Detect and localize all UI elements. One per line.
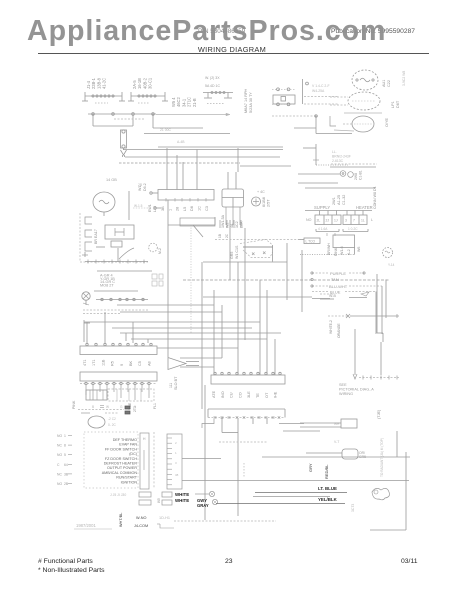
lower connector box left [86, 390, 107, 400]
wire dashed y442 [219, 441, 268, 443]
svg-text:9: 9 [120, 364, 124, 366]
aux contact boxes [152, 274, 163, 286]
wire y210 over terminal blocks [305, 210, 372, 212]
wire stub left of J10 [148, 192, 158, 212]
svg-text:A-4B: A-4B [177, 140, 185, 144]
wire table row TAN [311, 277, 339, 282]
svg-text:8: 8 [64, 444, 66, 448]
svg-text:LP1: LP1 [391, 101, 395, 108]
svg-text:C1-32: C1-32 [342, 195, 346, 205]
svg-text:(TJE): (TJE) [377, 409, 381, 419]
labels under lower connectors [92, 402, 157, 412]
svg-text:YEL/BLK: YEL/BLK [318, 497, 338, 502]
svg-text:5: 5 [64, 453, 66, 457]
svg-text:28A: 28A [239, 221, 243, 228]
legend bracket column [140, 433, 149, 489]
wire bus y147 [123, 147, 283, 150]
vertical wire x222 [221, 305, 223, 358]
compressor relay box [96, 225, 134, 247]
svg-text:WHT/BL: WHT/BL [119, 513, 123, 527]
control board connector bar J10 [158, 148, 214, 202]
wire bus node row [88, 113, 156, 116]
label WHITE bold pair [175, 492, 189, 503]
labels under relay module [221, 214, 243, 228]
drop wires under node row [222, 418, 267, 516]
svg-text:2-613C: 2-613C [332, 159, 344, 163]
svg-text:SLO BT: SLO BT [174, 376, 178, 390]
long dashed bottom [174, 520, 276, 522]
wire right branch [153, 114, 203, 128]
part number [198, 28, 245, 35]
run capacitor / overload M4 [330, 116, 389, 132]
wire x129 [128, 191, 130, 220]
svg-text:RED/BL: RED/BL [324, 464, 329, 479]
wire y225 from J10 [168, 200, 215, 357]
svg-text:1C: 1C [198, 206, 202, 211]
wire table row BLUE [312, 290, 376, 295]
table left boundary [301, 250, 303, 312]
wire bus y155 [125, 156, 280, 158]
wire drop left [93, 114, 133, 126]
svg-text:WHITE: WHITE [175, 498, 189, 503]
label LT. BLUE [253, 486, 347, 497]
wire y367 [180, 366, 214, 368]
svg-text:RUN/START: RUN/START [116, 476, 138, 480]
svg-text:L5: L5 [183, 207, 187, 211]
svg-text:H: H [143, 437, 146, 441]
svg-text:W: W [106, 405, 109, 409]
svg-text:DEF THERMO: DEF THERMO [113, 438, 137, 442]
svg-text:64: 64 [64, 463, 68, 467]
svg-text:1 0-2C: 1 0-2C [348, 227, 358, 231]
icemaker fan symbols [340, 170, 362, 180]
svg-text:W2: W2 [226, 223, 230, 228]
wire y174 [298, 173, 340, 175]
dashed vertical x244 [243, 463, 245, 477]
svg-text:21 00C: 21 00C [160, 128, 171, 132]
wire x316 lower segment [303, 144, 348, 165]
svg-text:PURPLE: PURPLE [330, 271, 346, 276]
svg-text:NC: NC [57, 444, 62, 448]
vertical wire x238 upper [237, 148, 239, 172]
connector J2 (freezer light harness) [128, 77, 168, 103]
svg-text:OUTPUT POWER: OUTPUT POWER [107, 466, 137, 470]
svg-text:O/YE: O/YE [385, 117, 389, 127]
bracket bottom [157, 524, 174, 528]
svg-text:ORANGE: ORANGE [337, 323, 341, 338]
door switch S1 [85, 217, 92, 224]
svg-text:W-1.5: W-1.5 [134, 204, 143, 208]
svg-text:41-2C: 41-2C [102, 78, 107, 89]
svg-text:111: 111 [169, 383, 173, 388]
vertical wire x230 [229, 220, 231, 280]
svg-text:4T1: 4T1 [83, 359, 87, 366]
dotted vertical x191 [190, 225, 192, 333]
svg-text:2W1: 2W1 [332, 197, 336, 205]
vertical connector strip [167, 434, 182, 489]
svg-text:M-2: M-2 [158, 248, 162, 254]
svg-text:C5: C5 [138, 361, 142, 366]
wire y358 [180, 357, 222, 359]
svg-text:R5: R5 [111, 361, 115, 366]
svg-text:11B: 11B [101, 359, 105, 366]
svg-text:TE: TE [256, 393, 260, 398]
table verticals down [376, 280, 386, 335]
svg-text:W-NO: W-NO [136, 516, 147, 520]
svg-text:2C: 2C [225, 233, 229, 238]
svg-text:4 1-6A: 4 1-6A [318, 227, 328, 231]
bottom bus of compressor area [85, 260, 148, 264]
label W-1.5 dashed [133, 204, 148, 208]
wire table row PURPLE [311, 271, 365, 276]
svg-text:A-2: A-2 [347, 249, 351, 255]
svg-text:V 1.4-C 2-F: V 1.4-C 2-F [312, 84, 330, 88]
connector J1 (fresh food light harness) [82, 77, 125, 103]
bottom right L wire [370, 452, 406, 530]
svg-text:W. (2) 3X: W. (2) 3X [205, 76, 220, 80]
door switch S3 [85, 242, 92, 251]
svg-text:G: G [120, 405, 123, 409]
wire y291 [94, 290, 138, 292]
svg-text:EVAP FAN: EVAP FAN [119, 443, 137, 447]
svg-text:2L: 2L [317, 219, 321, 223]
svg-text:1J: 1J [334, 219, 338, 223]
svg-text:1L: 1L [361, 219, 365, 223]
svg-text:WHITE-2: WHITE-2 [329, 320, 333, 334]
svg-text:ATE: ATE [212, 390, 216, 398]
small box lower-left of center [180, 218, 241, 238]
vertical wire x245 [244, 228, 246, 340]
step wire x377 [377, 274, 383, 375]
door switch S2 [85, 230, 92, 237]
node row y299 [96, 298, 148, 300]
wire table row W-B [312, 294, 367, 299]
svg-text:NO: NO [57, 434, 62, 438]
svg-text:5A 4D 1C: 5A 4D 1C [205, 84, 220, 88]
legend dashed box [84, 432, 138, 488]
svg-text:BR/WH: BR/WH [327, 243, 331, 255]
note SEE PICTORIAL [339, 383, 374, 396]
left pin labels column [57, 434, 72, 486]
footer non-illustrated parts [38, 567, 105, 574]
svg-text:38: 38 [175, 473, 179, 477]
svg-text:SUPPLY: SUPPLY [314, 205, 330, 210]
defrost heater box [300, 235, 361, 256]
svg-text:C22: C22 [387, 80, 391, 87]
svg-text:28: 28 [176, 207, 180, 211]
diagonal wire [193, 225, 203, 237]
wire to timer [303, 79, 339, 104]
svg-text:C: C [57, 463, 60, 467]
svg-text:1T1: 1T1 [92, 359, 96, 366]
legend text lines [102, 438, 138, 484]
svg-text:Y-14: Y-14 [388, 263, 395, 267]
svg-text:1: 1 [168, 209, 172, 211]
terminal block heater [343, 211, 373, 225]
relay module box [222, 172, 244, 225]
wire y113 [344, 112, 382, 114]
connector bar P12 [80, 343, 157, 354]
vertical wire x84 [84, 320, 90, 342]
svg-text:0- 2C: 0- 2C [108, 423, 116, 427]
svg-text:14 GB: 14 GB [106, 178, 117, 182]
svg-text:(DC): (DC) [129, 452, 137, 456]
svg-text:C3: C3 [205, 206, 209, 211]
svg-text:BRN/2-243F: BRN/2-243F [332, 155, 351, 159]
svg-text:W6: W6 [357, 247, 361, 252]
wire y166 [330, 166, 376, 168]
long vertical x205 [204, 385, 206, 520]
wire y431 [283, 430, 320, 432]
wire y166 [240, 165, 291, 167]
svg-text:W4-25A: W4-25A [312, 89, 325, 93]
svg-text:WIRING: WIRING [339, 392, 353, 396]
footer page number [225, 558, 233, 565]
svg-text:5/23A 30 TY: 5/23A 30 TY [249, 92, 253, 113]
node x155 [154, 207, 161, 209]
wire y114 continuation arrow [156, 113, 230, 116]
svg-text:EW1: EW1 [148, 204, 152, 212]
svg-text:3: 3 [175, 461, 177, 465]
svg-text:D8: D8 [190, 206, 194, 211]
svg-text:2B: 2B [64, 482, 69, 486]
label auxiliary dashed [312, 84, 330, 93]
node row y377 [359, 376, 399, 380]
svg-text:2W8: 2W8 [354, 173, 358, 180]
vertical wire x275 [274, 339, 276, 375]
svg-text:PICTORIAL DIAG..A: PICTORIAL DIAG..A [339, 388, 374, 392]
vertical wire x397 [396, 431, 398, 457]
thermal fuse F1 [121, 130, 127, 157]
wire y322 [84, 321, 260, 323]
terminal circles [195, 491, 218, 504]
wire table row BLU-WHT [311, 284, 382, 289]
svg-text:W1-6: W1-6 [340, 246, 344, 255]
svg-text:AU1: AU1 [382, 80, 386, 87]
labels under J20 [212, 390, 278, 398]
svg-text:W-B: W-B [329, 294, 337, 298]
svg-text:MO8 2T: MO8 2T [100, 283, 114, 287]
svg-text:3CT3: 3CT3 [351, 504, 355, 512]
wire corner x316 [294, 116, 352, 134]
wire y423 [279, 423, 304, 425]
svg-text:2J: 2J [326, 219, 330, 223]
svg-text:WHITE: WHITE [175, 492, 189, 497]
svg-text:1B: 1B [218, 234, 222, 238]
tick row y271 [97, 270, 152, 272]
svg-text:L: L [371, 218, 373, 222]
svg-text:J J5 JI J30: J J5 JI J30 [110, 493, 126, 497]
svg-text:HEATER: HEATER [356, 205, 373, 210]
svg-text:30-C1: 30-C1 [148, 77, 153, 89]
connector bar P13 [80, 372, 157, 381]
svg-text:TAN: TAN [331, 277, 339, 282]
svg-text:A1-25: A1-25 [337, 195, 341, 205]
dashed wire y239.5 [215, 239, 302, 241]
defrost timer box [272, 88, 295, 106]
motor symbol M6 [252, 190, 271, 207]
vertical wire x355 arrow [353, 329, 357, 379]
svg-text:BLU-WHT: BLU-WHT [329, 284, 348, 289]
svg-text:CONN W8 D1: CONN W8 D1 [373, 186, 377, 209]
svg-text:1C2: 1C2 [235, 221, 239, 228]
svg-text:SEE: SEE [339, 383, 347, 387]
svg-text:GR5: GR5 [359, 455, 366, 459]
svg-text:FF DOOR SWITCH: FF DOOR SWITCH [105, 447, 137, 451]
label BLUE lead arrow [320, 292, 369, 299]
svg-text:3-9C2 W8: 3-9C2 W8 [402, 71, 406, 86]
wire y297 [203, 296, 312, 298]
svg-text:3B: 3B [64, 472, 69, 476]
svg-text:FL1: FL1 [153, 403, 157, 409]
ground stub [82, 252, 88, 257]
vertical wire x287 [286, 243, 288, 300]
vertical wire x260 [259, 280, 261, 375]
wire y130 [334, 130, 354, 131]
svg-text:V-T: V-T [334, 440, 339, 444]
wire y348 [157, 347, 238, 349]
svg-text:D6T: D6T [396, 100, 400, 108]
watermark AppliancePartsPros.com [27, 17, 386, 46]
footer date [401, 558, 418, 565]
heater box [306, 449, 366, 459]
svg-text:NO: NO [306, 218, 312, 222]
vertical wire x202 [201, 262, 203, 409]
terminal block supply [306, 211, 341, 225]
thermostat blob [372, 488, 390, 499]
wire y333 [120, 332, 281, 334]
svg-text:1987/2001: 1987/2001 [76, 523, 96, 528]
wire bus y162 [119, 162, 240, 164]
pins under P13 [80, 382, 157, 400]
svg-text:IHE: IHE [274, 391, 278, 398]
svg-text:GRAY: GRAY [197, 503, 209, 508]
footer functional parts [38, 558, 93, 565]
svg-text:LL.: LL. [332, 150, 337, 154]
svg-text:NO: NO [57, 482, 62, 486]
wire y457 [262, 456, 410, 458]
wire y458 left [182, 458, 221, 460]
box below switch wedge [203, 261, 287, 263]
wire y339 [131, 338, 267, 340]
svg-text:NC: NC [57, 472, 62, 476]
labels under J10 [161, 206, 209, 211]
label cluster above supply [332, 195, 346, 205]
dashed enclosure left [80, 213, 148, 262]
svg-text:1W1-5A: 1W1-5A [221, 214, 225, 228]
svg-text:A8: A8 [147, 361, 151, 366]
fan motor M1 [93, 192, 115, 216]
svg-text:DEFROST HEATER: DEFROST HEATER [104, 462, 138, 466]
wire y280 long [183, 279, 390, 281]
svg-text:GR5: GR5 [230, 252, 234, 259]
svg-text:1: 1 [64, 434, 66, 438]
header rule [38, 53, 429, 54]
svg-text:J4-COM: J4-COM [134, 524, 148, 528]
lower dashed connector [108, 389, 154, 401]
wire y477 long [182, 480, 409, 482]
svg-text:NO: NO [57, 453, 62, 457]
title WIRING DIAGRAM [0, 45, 464, 54]
svg-text:+ 4C: + 4C [257, 190, 265, 194]
svg-text:PINK: PINK [72, 400, 76, 409]
label M6A7 vertical [244, 88, 253, 113]
wire y188 [305, 187, 375, 189]
svg-text:1: 1 [175, 451, 177, 455]
svg-text:3B: 3B [161, 206, 165, 211]
wire y328 [112, 327, 252, 329]
relay contact pair B [157, 492, 172, 505]
wires into P12 [87, 312, 148, 343]
vertical wire x238 [237, 262, 239, 375]
svg-text:BK: BK [129, 360, 133, 366]
label cluster mux [100, 274, 115, 288]
defrost thermostat bimetal [78, 406, 130, 429]
svg-text:IGNITION: IGNITION [121, 480, 138, 484]
svg-text:-2 C2: -2 C2 [108, 417, 116, 421]
svg-text:CO: CO [238, 392, 242, 398]
svg-text:B: B [92, 405, 94, 409]
dashed vertical x154 [153, 432, 155, 488]
evap fan motor M5 [383, 248, 393, 258]
label block LL/BRN [332, 150, 351, 163]
label GRAY bold pair [197, 498, 209, 508]
dashed rows y311 [83, 310, 148, 314]
svg-text:C1-B1: C1-B1 [359, 170, 363, 180]
svg-text:4A: 4A [230, 223, 234, 228]
vertical wire x267 [266, 290, 268, 375]
wire y305 [117, 304, 214, 306]
condenser fan motor M2 [352, 70, 391, 90]
vertical wire x214 [213, 290, 215, 375]
label YEL/BLK [216, 497, 345, 504]
lamp L1 [82, 292, 90, 305]
connector J3 (dispenser harness) [203, 76, 233, 104]
label W1 D6.2 [138, 183, 147, 191]
svg-text:LT. BLUE: LT. BLUE [318, 486, 337, 491]
water valve box [300, 419, 357, 428]
wire dashed y162 [331, 163, 377, 165]
TCO box [298, 238, 320, 244]
svg-text:3: 3 [345, 219, 347, 223]
icemaker motor M7 [149, 243, 162, 254]
svg-text:W5: W5 [157, 498, 161, 503]
relay contact pair A [139, 492, 151, 505]
step wire bottom left of J21 [202, 419, 214, 428]
svg-text:TO RADIANT (JA) M (TOP): TO RADIANT (JA) M (TOP) [380, 438, 384, 477]
labels under P12 [83, 359, 151, 366]
svg-text:FZ DOOR SWITCH: FZ DOOR SWITCH [105, 457, 137, 461]
wire arc to bus [118, 248, 134, 262]
wire bus y134 [144, 133, 230, 135]
lower connector bracket J21 [208, 409, 285, 419]
svg-text:2/5T: 2/5T [267, 199, 271, 207]
switch wedge S4 [230, 240, 273, 262]
publication number [331, 28, 415, 35]
svg-text:W1 C1S: W1 C1S [235, 245, 239, 259]
svg-text:CU: CU [230, 392, 234, 398]
svg-text:21-B: 21-B [192, 98, 197, 107]
wire y312 [120, 311, 222, 313]
amplifier triangle [168, 358, 199, 391]
wire y183 [298, 182, 338, 184]
svg-text:2: 2 [175, 441, 177, 445]
compressor motor M3 [330, 92, 400, 110]
svg-text:3LE: 3LE [247, 391, 251, 398]
svg-text:M6A7 14 RPH: M6A7 14 RPH [244, 88, 248, 113]
label 1987/2001 [74, 523, 112, 529]
svg-text:W1: W1 [138, 186, 142, 191]
